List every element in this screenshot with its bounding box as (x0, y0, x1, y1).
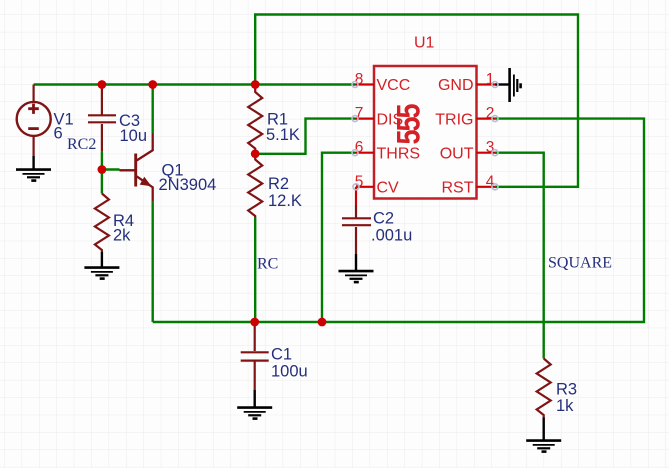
svg-text:8: 8 (355, 71, 364, 88)
svg-text:1k: 1k (556, 397, 574, 415)
label R1 value (266, 111, 300, 145)
net label RC (257, 256, 278, 273)
svg-text:C1: C1 (271, 346, 292, 364)
pin end markers (352, 82, 498, 190)
label R3 value (556, 381, 577, 416)
svg-text:10u: 10u (120, 127, 148, 145)
svg-text:2: 2 (486, 105, 495, 122)
wire top loop (R1 top to RST riser) (255, 15, 578, 187)
pin 6 stub (355, 139, 374, 156)
wire THRS pin 6 down to bottom rail (322, 153, 355, 322)
svg-text:RC2: RC2 (67, 136, 96, 153)
pin 3 stub (477, 139, 496, 156)
junction node THRS/bottom rail (318, 318, 327, 327)
wire base node to Q1 base (102, 168, 120, 170)
label C3 value (119, 112, 147, 145)
pin 8 stub (355, 71, 374, 88)
svg-text:100u: 100u (271, 363, 308, 381)
svg-text:CV: CV (377, 180, 400, 197)
wire Q1 emitter to bottom rail (151, 201, 153, 322)
wire rail to Q1 collector (151, 85, 153, 134)
junction node C1/bottom rail (250, 318, 259, 327)
junction node Q1 base (98, 165, 107, 174)
svg-text:5.1K: 5.1K (266, 126, 300, 144)
pin 5 stub (355, 173, 374, 190)
svg-text:THRS: THRS (377, 145, 421, 162)
wire R1/R2 junction to DIS pin 7 (255, 119, 355, 154)
svg-text:6: 6 (54, 125, 63, 143)
svg-text:2k: 2k (113, 227, 131, 245)
resistor R3 (537, 359, 551, 418)
svg-text:4: 4 (486, 173, 495, 190)
junction node Q1 collector/rail (148, 80, 157, 89)
IC U1 (555 timer) (374, 35, 477, 199)
pin 1 stub (477, 71, 496, 88)
svg-text:R3: R3 (556, 381, 577, 399)
ground (rotated, at GND pin 1) (495, 68, 521, 102)
svg-text:VCC: VCC (377, 77, 411, 94)
svg-text:C2: C2 (373, 210, 394, 228)
svg-text:555: 555 (391, 104, 427, 145)
ground (below V1) (16, 156, 51, 181)
resistor R4 (95, 194, 109, 253)
capacitor C1 (241, 322, 269, 390)
label R4 value (113, 212, 134, 245)
svg-text:R2: R2 (268, 175, 289, 193)
capacitor C2 (342, 187, 371, 254)
pin 7 stub (355, 105, 374, 122)
ground (below R3) (526, 418, 561, 452)
junction node C3/VCC rail (98, 80, 107, 89)
capacitor C3 (88, 85, 116, 152)
svg-text:U1: U1 (414, 35, 435, 52)
wire R2 bottom to bottom rail (254, 218, 256, 323)
svg-text:TRIG: TRIG (435, 111, 473, 128)
wire base node down to R4 (101, 170, 103, 194)
svg-text:2N3904: 2N3904 (159, 176, 217, 194)
label R2 value (268, 175, 302, 210)
pin 4 stub (477, 173, 496, 190)
svg-text:6: 6 (355, 139, 364, 156)
wire VCC top rail (34, 83, 355, 85)
junction node R1/R2/DIS (251, 149, 260, 158)
svg-text:.001u: .001u (371, 227, 412, 245)
net label RC2 (67, 136, 96, 153)
label V1 value (54, 110, 74, 142)
svg-text:OUT: OUT (440, 145, 474, 162)
net label SQUARE (548, 254, 612, 271)
label Q1 value (159, 162, 217, 194)
svg-text:7: 7 (355, 105, 364, 122)
svg-text:12.K: 12.K (268, 192, 302, 210)
svg-text:RC: RC (257, 256, 278, 273)
wire C3 bottom to base node (101, 152, 103, 170)
wire OUT down to R3 (495, 153, 544, 359)
transistor Q1 (120, 133, 153, 201)
svg-text:GND: GND (438, 77, 474, 94)
resistor R2 (248, 154, 262, 218)
wire TRIG to right riser to bottom rail (153, 119, 644, 322)
svg-text:1: 1 (486, 71, 495, 88)
svg-text:SQUARE: SQUARE (548, 254, 612, 271)
ground (below C1) (237, 390, 272, 419)
resistor R1 (248, 85, 262, 154)
ground (below C2) (339, 254, 374, 282)
junction node R1 top/rail (251, 80, 260, 89)
label C2 value (371, 210, 412, 245)
voltage source V1 (17, 85, 51, 157)
pin 2 stub (477, 105, 496, 122)
label C1 value (271, 346, 308, 381)
svg-text:RST: RST (442, 180, 474, 197)
svg-text:3: 3 (486, 139, 495, 156)
ground (below R4) (84, 252, 119, 279)
